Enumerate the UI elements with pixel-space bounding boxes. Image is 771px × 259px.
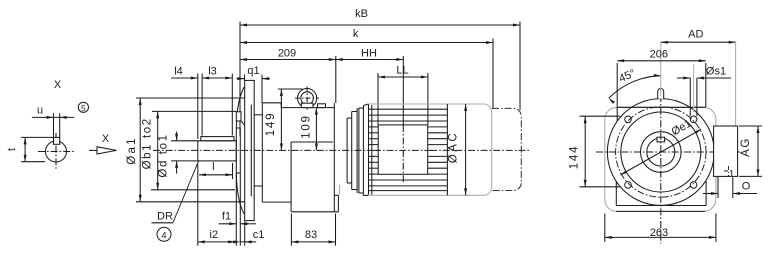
svg-text:206: 206 [650,48,668,60]
svg-text:AD: AD [688,29,703,41]
svg-text:Øs1: Øs1 [706,66,726,78]
svg-text:5: 5 [81,103,86,113]
svg-text:k: k [353,28,359,40]
svg-text:209: 209 [278,48,296,60]
svg-text:83: 83 [305,229,317,241]
svg-text:q1: q1 [247,65,259,77]
svg-text:i2: i2 [210,229,219,241]
svg-text:O: O [742,181,751,193]
svg-text:t: t [6,148,18,151]
svg-text:144: 144 [569,145,581,170]
svg-text:f1: f1 [222,211,231,223]
svg-text:4: 4 [161,230,166,240]
svg-text:c1: c1 [253,229,265,241]
svg-text:DR: DR [157,211,173,223]
svg-text:Øb1 to2: Øb1 to2 [142,117,154,169]
svg-text:LL: LL [396,65,408,77]
svg-text:AG: AG [740,137,752,157]
svg-text:HH: HH [361,48,377,60]
svg-text:kB: kB [355,8,368,20]
svg-text:X: X [102,133,110,145]
svg-text:l: l [212,161,214,173]
svg-text:l4: l4 [174,66,183,78]
svg-text:u: u [37,105,43,117]
svg-text:149: 149 [265,112,277,137]
svg-text:ØAC: ØAC [448,131,460,163]
svg-text:X: X [54,79,62,91]
svg-text:109: 109 [301,114,313,139]
svg-text:Ød to1: Ød to1 [158,133,170,177]
svg-text:Øa1: Øa1 [126,136,138,164]
svg-text:l3: l3 [208,66,217,78]
